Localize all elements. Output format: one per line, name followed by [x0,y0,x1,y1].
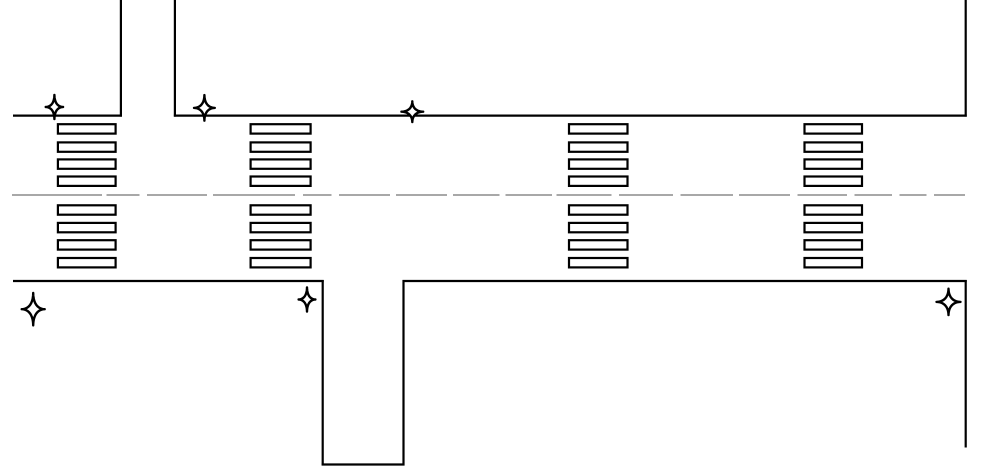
crosswalk CW2 bar 5 [251,205,311,214]
crosswalk CW3 bar 7 [569,240,628,249]
crosswalk CW2 bar 6 [251,223,311,232]
side street (bottom) left curb wire [322,280,324,466]
crosswalk CW4 bar 2 [805,142,863,151]
drawing boundary: bottom-right vertical wire [965,280,967,448]
side street (top) right curb wire [174,0,176,117]
side street (top) left curb wire [120,0,122,117]
drawing boundary: top-right vertical wire [965,0,967,117]
road edge: top, left segment [13,114,122,116]
crosswalk CW3 bar 8 [569,258,628,267]
crosswalk CW2 bar 4 [251,177,311,186]
crosswalk CW2 bar 1 [251,124,311,133]
lane centerline (dashed) [12,194,965,196]
crosswalk CW2 bar 8 [251,258,311,267]
streetlight L1 (4-point star symbol) [46,95,63,119]
streetlight L6 (4-point star symbol) [937,289,961,315]
side street (bottom) right curb wire [402,280,404,466]
crosswalk CW1 bar 8 [58,258,116,267]
crosswalk CW4 bar 3 [805,159,863,168]
crosswalk CW2 bar 7 [251,240,311,249]
streetlight L5 (4-point star symbol) [299,287,316,311]
crosswalk CW4 bar 7 [805,240,863,249]
crosswalk CW4 bar 4 [805,177,863,186]
streetlight L2 (4-point star symbol) [194,95,215,121]
crosswalk CW3 [569,124,628,267]
side street (bottom) end cap wire [322,463,405,465]
crosswalk CW4 bar 6 [805,223,863,232]
crosswalk CW1 bar 1 [58,124,116,133]
crosswalk CW3 bar 4 [569,177,628,186]
crosswalk CW4 [805,124,863,267]
crosswalk CW2 bar 2 [251,142,311,151]
crosswalk CW3 bar 6 [569,223,628,232]
crosswalk CW1 bar 6 [58,223,116,232]
road edge: bottom, left segment [13,280,324,282]
road edge: bottom, right segment [403,280,967,282]
crosswalk CW1 bar 2 [58,142,116,151]
streetlight L3 (4-point star symbol) [401,101,423,122]
road edge: top, right segment [174,114,967,116]
crosswalk CW3 bar 2 [569,142,628,151]
crosswalk CW1 [58,124,116,267]
crosswalk CW1 bar 5 [58,205,116,214]
crosswalk CW3 bar 1 [569,124,628,133]
streetlight L4 (4-point star symbol) [22,293,45,325]
crosswalk CW1 bar 4 [58,177,116,186]
crosswalk CW4 bar 5 [805,205,863,214]
crosswalk CW1 bar 7 [58,240,116,249]
crosswalk CW2 bar 3 [251,159,311,168]
crosswalk CW2 [251,124,311,267]
crosswalk CW3 bar 3 [569,159,628,168]
crosswalk CW3 bar 5 [569,205,628,214]
crosswalk CW1 bar 3 [58,159,116,168]
crosswalk CW4 bar 1 [805,124,863,133]
crosswalk CW4 bar 8 [805,258,863,267]
